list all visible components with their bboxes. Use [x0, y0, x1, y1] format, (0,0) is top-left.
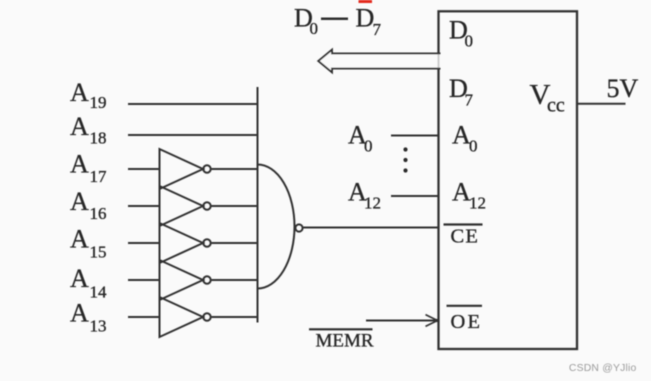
svg-text:0: 0	[465, 32, 474, 51]
svg-text:7: 7	[465, 91, 474, 110]
svg-text:15: 15	[90, 243, 107, 262]
svg-text:16: 16	[90, 204, 107, 223]
svg-text:A: A	[70, 299, 89, 328]
svg-text:A: A	[70, 187, 89, 216]
svg-text:19: 19	[90, 93, 107, 112]
svg-text:0: 0	[310, 19, 319, 38]
svg-text:14: 14	[90, 283, 108, 302]
svg-text:0: 0	[364, 137, 373, 156]
svg-text:5V: 5V	[607, 74, 639, 103]
svg-text:A: A	[70, 112, 89, 141]
svg-text:A: A	[70, 264, 89, 293]
svg-text:A: A	[70, 78, 89, 107]
svg-text:MEMR: MEMR	[316, 331, 374, 352]
svg-text:D: D	[356, 3, 375, 32]
svg-text:A: A	[70, 225, 89, 254]
svg-text:0: 0	[469, 137, 478, 156]
svg-text:12: 12	[469, 194, 486, 213]
svg-text:CSDN @YJlio: CSDN @YJlio	[569, 363, 637, 374]
svg-text:18: 18	[90, 129, 107, 148]
svg-text:CE: CE	[451, 226, 480, 248]
svg-text:17: 17	[90, 167, 108, 186]
svg-text:OE: OE	[451, 311, 483, 333]
svg-text:7: 7	[373, 20, 382, 39]
svg-text:13: 13	[90, 317, 107, 336]
svg-text:A: A	[70, 150, 89, 179]
svg-text:12: 12	[364, 194, 381, 213]
svg-text:cc: cc	[547, 95, 565, 117]
